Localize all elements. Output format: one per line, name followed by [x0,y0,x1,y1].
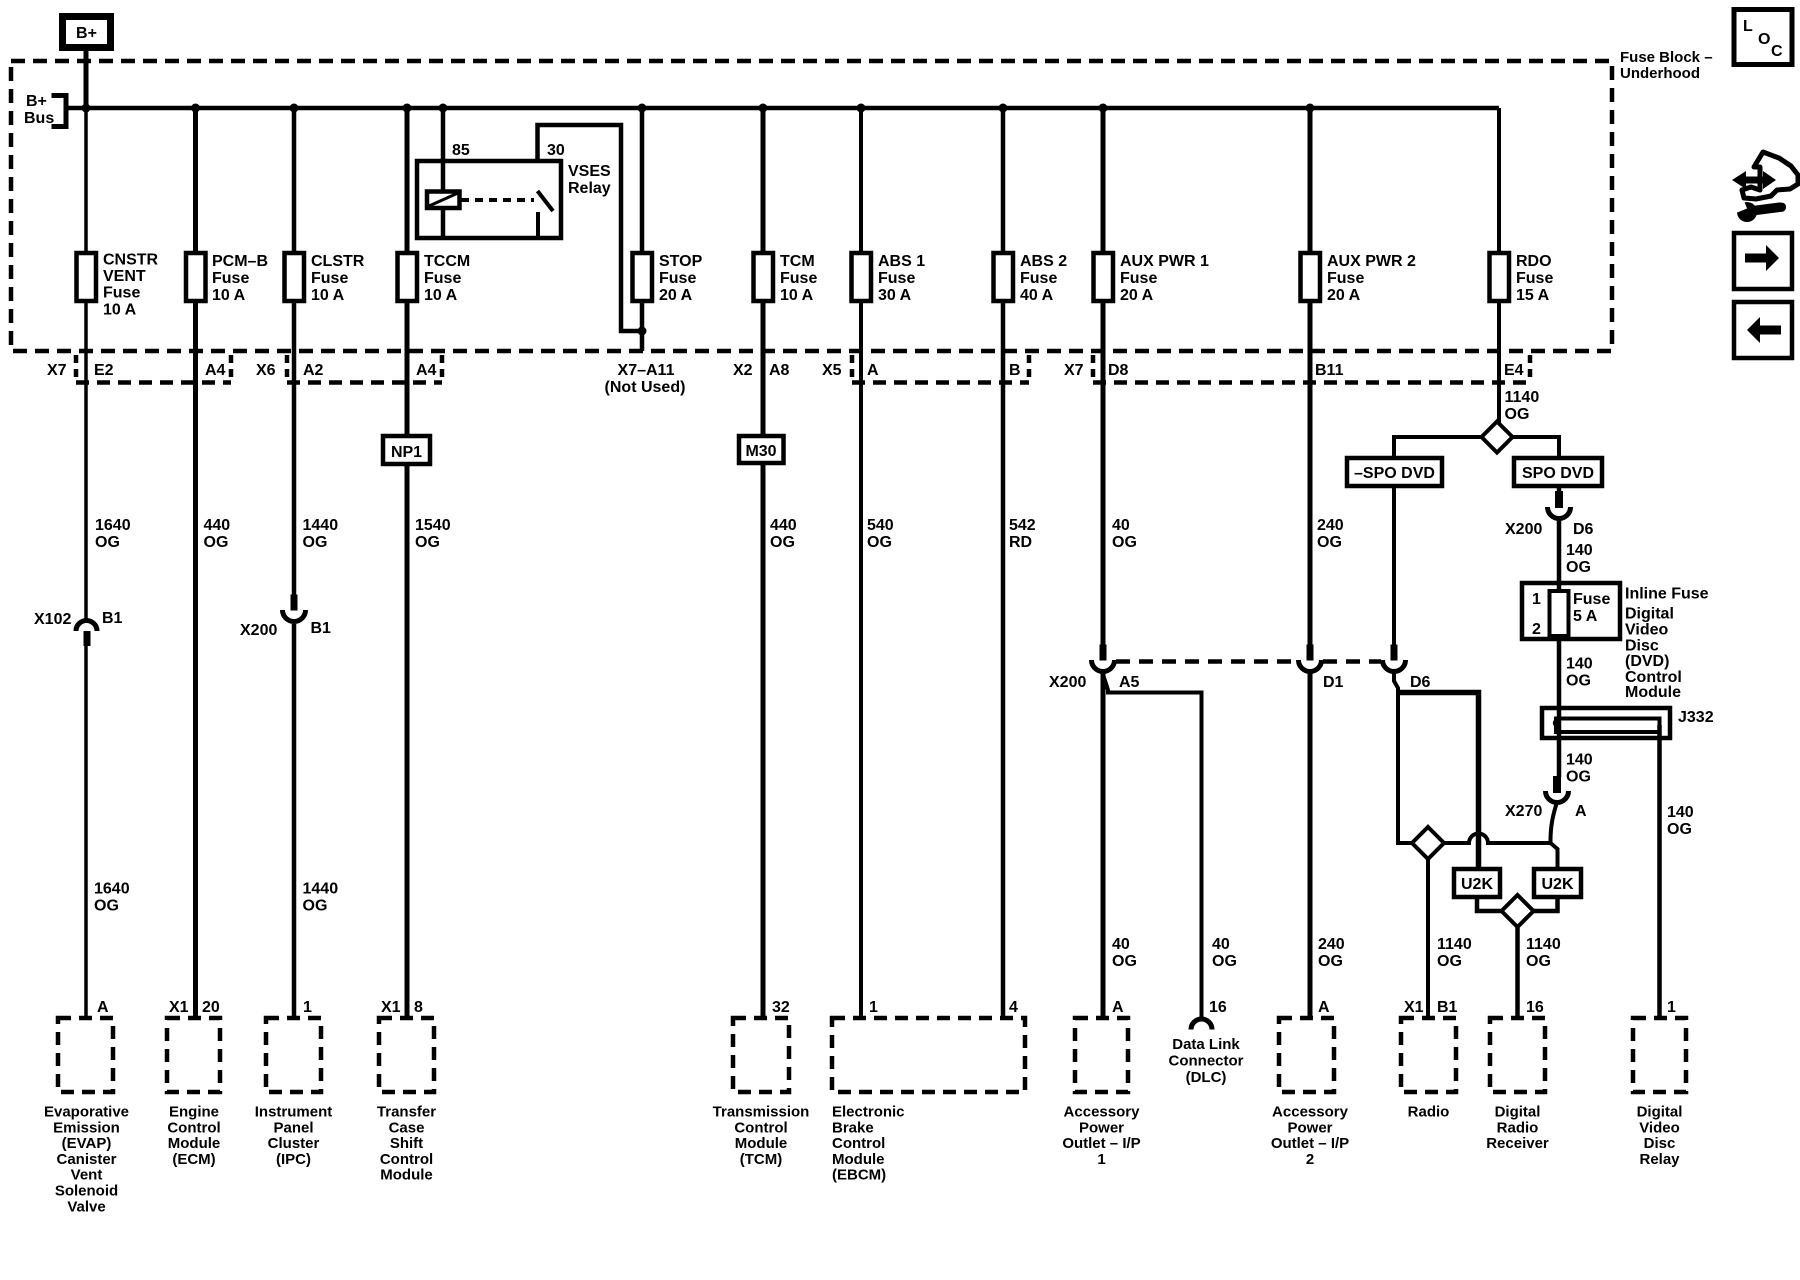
svg-text:CNSTR: CNSTR [103,252,159,269]
wire relay pin 30 to STOP fuse [538,125,643,331]
component box digital radio receiver [1490,1018,1545,1092]
wire PCM-B drop (to ECM) [193,108,198,1018]
component box EVAP canister vent solenoid valve [58,1018,113,1092]
svg-text:A: A [867,362,879,379]
svg-text:140: 140 [1667,804,1694,821]
wire relay coil feed pin 85 [441,108,446,238]
icon arrow back box [1734,302,1792,358]
svg-text:A: A [1112,999,1124,1016]
svg-text:240: 240 [1318,936,1345,953]
svg-text:440: 440 [770,517,797,534]
svg-text:140: 140 [1566,542,1593,559]
svg-text:Fuse Block –: Fuse Block – [1620,49,1713,66]
splice diamond radio feed [1412,827,1444,859]
svg-text:OG: OG [95,534,120,551]
svg-text:Panel: Panel [273,1119,313,1136]
svg-text:540: 540 [867,517,894,534]
pin labels above component boxes [97,999,1676,1016]
label IPC [255,1104,333,1168]
svg-text:Fuse: Fuse [780,270,817,287]
svg-text:Emission: Emission [53,1119,120,1136]
svg-text:B1: B1 [1437,999,1458,1016]
component box transfer case shift control module [379,1018,434,1092]
connector X102 B1 (EVAP wire) [34,610,123,646]
svg-text:OG: OG [1112,953,1137,970]
svg-text:B+: B+ [26,93,47,110]
svg-text:Power: Power [1287,1119,1332,1136]
svg-text:TCM: TCM [780,253,815,270]
svg-text:20: 20 [202,999,220,1016]
wire STOP fuse drop [640,108,645,351]
connector D6 (-SPO DVD wire) [1383,645,1431,692]
component box radio [1401,1018,1456,1092]
label inline fuse DVD control module [1625,586,1709,702]
svg-text:Shift: Shift [390,1135,423,1152]
svg-text:Accessory: Accessory [1272,1104,1349,1121]
component box ECM [167,1018,220,1092]
svg-text:542: 542 [1009,517,1036,534]
svg-text:140: 140 [1566,656,1593,673]
svg-text:1640: 1640 [94,881,130,898]
svg-text:OG: OG [204,534,229,551]
component box EBCM [832,1018,1025,1092]
svg-text:Fuse: Fuse [1516,270,1553,287]
svg-text:Engine: Engine [169,1104,219,1121]
svg-text:1: 1 [1532,591,1541,608]
svg-text:10 A: 10 A [103,302,137,319]
svg-text:D8: D8 [1108,362,1129,379]
connector dashed outline A/B [852,355,1029,383]
svg-text:Connector: Connector [1169,1053,1244,1070]
svg-text:C: C [1771,43,1783,60]
wire radio splice to radio [1426,859,1430,1018]
svg-text:Disc: Disc [1625,638,1659,655]
svg-text:Video: Video [1625,622,1669,639]
connector DLC arc [1191,1019,1212,1029]
fuse RDO 15A [1490,253,1554,304]
wire SPO DVD down to X200 D6 [1557,486,1562,492]
svg-text:OG: OG [1437,953,1462,970]
fuse TCCM 10A [398,253,471,304]
svg-text:Brake: Brake [832,1119,874,1136]
svg-text:D6: D6 [1573,521,1594,538]
svg-text:Relay: Relay [568,180,611,197]
svg-text:X200: X200 [1049,674,1086,691]
svg-text:X7–A11: X7–A11 [618,362,675,379]
svg-text:Fuse: Fuse [1327,270,1364,287]
splice diamond RDO feed [1482,422,1513,453]
svg-text:RD: RD [1009,534,1032,551]
svg-text:Module: Module [735,1135,788,1152]
svg-text:E2: E2 [94,362,114,379]
svg-text:2: 2 [1306,1151,1314,1168]
svg-text:B: B [1009,362,1021,379]
svg-text:X7: X7 [1064,362,1084,379]
svg-text:A4: A4 [205,362,226,379]
label accessory power outlet 1 [1062,1104,1140,1168]
box SPO DVD [1514,458,1602,486]
icon tools/diagnostic [1732,152,1798,222]
svg-text:20 A: 20 A [1120,287,1154,304]
fuse ABS 2 40A [994,253,1068,304]
box M30 option [739,436,784,463]
wire inline fuse to J332 [1557,639,1562,720]
svg-text:SPO DVD: SPO DVD [1522,465,1594,482]
wire CLSTR drop (to IPC) [292,108,297,595]
svg-text:Inline Fuse: Inline Fuse [1625,586,1709,603]
svg-text:(IPC): (IPC) [276,1151,311,1168]
svg-text:OG: OG [1566,673,1591,690]
svg-text:OG: OG [1667,821,1692,838]
svg-text:40: 40 [1212,936,1230,953]
svg-text:Fuse: Fuse [1120,270,1157,287]
svg-text:X7: X7 [47,362,67,379]
svg-text:(ECM): (ECM) [172,1151,215,1168]
svg-text:–SPO DVD: –SPO DVD [1354,465,1435,482]
connector D6 jog down [1394,671,1412,843]
svg-text:PCM–B: PCM–B [212,253,268,270]
relay coil [427,192,460,209]
svg-text:Control: Control [380,1151,433,1168]
svg-text:X200: X200 [1505,521,1542,538]
svg-text:1: 1 [1667,999,1676,1016]
svg-text:Solenoid: Solenoid [55,1183,118,1200]
splice diamond digital radio receiver feed [1502,895,1534,927]
svg-text:(TCM): (TCM) [740,1151,782,1168]
svg-text:Receiver: Receiver [1486,1135,1549,1152]
label EBCM [832,1104,905,1184]
svg-text:140: 140 [1566,752,1593,769]
svg-text:Control: Control [734,1119,787,1136]
connector X200 D6 (DVD feed) [1505,491,1594,538]
svg-text:X6: X6 [256,362,276,379]
wire diamond to X270 junction with hop over U2K wire [1444,834,1551,844]
relay name label [568,163,611,197]
svg-text:X5: X5 [822,362,842,379]
label 140 OG (below inline fuse) [1566,656,1593,690]
svg-text:J332: J332 [1678,709,1714,726]
svg-text:Fuse: Fuse [103,285,140,302]
wire U2K right to bottom splice [1534,897,1558,911]
svg-text:M30: M30 [745,443,776,460]
svg-text:Fuse: Fuse [212,270,249,287]
svg-text:Module: Module [380,1167,433,1184]
svg-text:Control: Control [832,1135,885,1152]
wire TCCM drop (to transfer case module) [405,108,410,1018]
svg-text:A2: A2 [303,362,324,379]
svg-text:10 A: 10 A [424,287,458,304]
wire TCM drop [761,108,766,1018]
svg-text:B+: B+ [76,25,97,42]
label TCM [713,1104,810,1168]
svg-text:Fuse: Fuse [878,270,915,287]
svg-text:1640: 1640 [95,517,131,534]
svg-text:Transfer: Transfer [377,1104,436,1121]
svg-text:85: 85 [452,142,470,159]
svg-text:Module: Module [168,1135,221,1152]
svg-text:1140: 1140 [1505,389,1540,406]
svg-text:OG: OG [303,898,328,915]
svg-text:Accessory: Accessory [1064,1104,1141,1121]
svg-text:A: A [1575,803,1587,820]
label 140 OG (DVD relay wire) [1667,804,1694,838]
svg-text:Module: Module [1625,684,1681,701]
label digital radio receiver [1486,1104,1549,1153]
box U2K left [1454,869,1500,897]
component box digital video disc relay [1633,1018,1686,1092]
svg-text:1440: 1440 [303,517,339,534]
svg-text:STOP: STOP [659,253,703,270]
label EVAP [44,1104,129,1216]
svg-text:Data Link: Data Link [1172,1036,1240,1053]
wire ABS2 drop [1001,108,1006,1018]
svg-text:Outlet – I/P: Outlet – I/P [1062,1135,1140,1152]
svg-text:Underhood: Underhood [1620,65,1700,82]
svg-text:U2K: U2K [1541,876,1573,893]
wire RDO drop [1497,108,1501,423]
wire J332 to DVD relay [1657,725,1662,1018]
wire D6 branch to U2K left [1398,693,1479,870]
svg-text:Evaporative: Evaporative [44,1104,129,1121]
relay linkage dashed [461,198,534,202]
connector X270 A [1505,776,1587,820]
wire diamond to SPO DVD boxes [1394,437,1482,458]
wire X200 D6 to inline fuse [1557,518,1562,591]
label DLC [1169,1036,1244,1086]
svg-text:D1: D1 [1323,674,1344,691]
label ECM [167,1104,220,1168]
fuse CLSTR 10A [285,253,365,304]
svg-text:B1: B1 [311,620,332,637]
svg-text:D6: D6 [1410,674,1431,691]
wire labels row 2 [94,881,338,915]
label digital video disc relay [1637,1104,1683,1168]
wire label 1140 OG (RDO) [1505,389,1540,423]
label 140 OG (below J332) [1566,752,1593,786]
svg-text:40: 40 [1112,936,1130,953]
svg-text:Power: Power [1079,1119,1124,1136]
relay switch contact [538,191,554,211]
splice pack J332 [1542,708,1714,738]
inline fuse box DVD [1522,583,1620,639]
fuse ABS 1 30A [852,253,926,304]
svg-text:OG: OG [303,534,328,551]
svg-text:20 A: 20 A [659,287,693,304]
svg-text:10 A: 10 A [780,287,814,304]
svg-text:NP1: NP1 [391,444,422,461]
svg-text:TCCM: TCCM [424,253,470,270]
connector X200 A5 (AUX PWR 1) [1049,645,1140,692]
svg-text:1540: 1540 [415,517,451,534]
svg-text:OG: OG [1526,953,1551,970]
svg-text:40 A: 40 A [1020,287,1054,304]
wire labels row 3 [1112,936,1561,970]
component box IPC [266,1018,321,1092]
svg-text:(EVAP): (EVAP) [62,1135,112,1152]
svg-text:Digital: Digital [1637,1104,1683,1121]
svg-text:Fuse: Fuse [1020,270,1057,287]
svg-text:15 A: 15 A [1516,287,1550,304]
wire X270 A down with jog [1551,802,1558,841]
svg-text:A: A [1318,999,1330,1016]
component box accessory power outlet 1 [1075,1018,1128,1092]
connector row labels under fuse block [47,362,1524,396]
svg-text:Fuse: Fuse [424,270,461,287]
svg-text:X102: X102 [34,611,71,628]
connector D1 (AUX PWR 2) [1299,645,1344,692]
svg-text:Transmission: Transmission [713,1104,810,1121]
fuse PCM-B 10A [186,253,268,304]
svg-text:Fuse: Fuse [311,270,348,287]
fuse AUX PWR 2 20A [1301,253,1417,304]
wire U2K left to bottom splice [1477,897,1502,911]
svg-text:X1: X1 [1404,999,1424,1016]
svg-text:A8: A8 [769,362,790,379]
svg-text:Control: Control [167,1119,220,1136]
svg-text:30: 30 [547,142,565,159]
svg-text:OG: OG [1566,769,1591,786]
svg-text:B1: B1 [102,610,123,627]
svg-text:Canister: Canister [56,1151,116,1168]
svg-text:Valve: Valve [67,1198,105,1215]
fuse STOP 20A [633,253,703,304]
svg-text:OG: OG [1317,534,1342,551]
svg-text:U2K: U2K [1461,876,1493,893]
wire J332 to X270 [1557,731,1562,777]
svg-text:30 A: 30 A [878,287,912,304]
svg-text:Module: Module [832,1151,885,1168]
svg-text:1: 1 [303,999,312,1016]
svg-text:ABS 1: ABS 1 [878,253,925,270]
svg-text:440: 440 [204,517,231,534]
wire AUX PWR 1 branch to DLC [1104,676,1202,1018]
label Fuse Block - Underhood [1620,49,1713,82]
svg-text:Electronic: Electronic [832,1104,905,1121]
wire B+ box to bus [84,50,89,108]
fuse TCM 10A [754,253,818,304]
icon arrow next box [1734,233,1792,289]
svg-text:20 A: 20 A [1327,287,1361,304]
wire labels row 1 [95,517,1344,551]
svg-text:OG: OG [1212,953,1237,970]
svg-text:VSES: VSES [568,163,611,180]
svg-text:X1: X1 [169,999,189,1016]
connector X200 B1 (CLSTR wire) [240,595,331,640]
box NP1 option [383,436,430,464]
svg-text:B11: B11 [1315,362,1344,379]
svg-text:OG: OG [1318,953,1343,970]
svg-text:5 A: 5 A [1573,608,1598,625]
svg-text:OG: OG [1112,534,1137,551]
svg-text:OG: OG [1566,559,1591,576]
svg-text:Instrument: Instrument [255,1104,333,1121]
fuse CNSTR VENT 10A [77,252,159,319]
box U2K right [1534,869,1581,897]
svg-text:X270: X270 [1505,803,1542,820]
node B+ Bus label and bracket [24,93,66,127]
svg-text:X1: X1 [381,999,401,1016]
connector dashed outline E2/A4 [76,355,231,383]
svg-text:1140: 1140 [1437,936,1472,953]
svg-text:(DVD): (DVD) [1625,653,1669,670]
svg-text:A: A [97,999,109,1016]
svg-text:(Not Used): (Not Used) [605,379,686,396]
label accessory power outlet 2 [1271,1104,1349,1168]
icon LOC box [1734,10,1792,65]
svg-text:1140: 1140 [1526,936,1561,953]
svg-text:A5: A5 [1119,674,1140,691]
svg-text:Vent: Vent [71,1167,103,1184]
relay VSES box [417,161,561,238]
svg-text:16: 16 [1209,999,1227,1016]
wire ABS1 drop [859,108,863,1018]
fuse block underhood dashed border [11,61,1612,351]
svg-text:Radio: Radio [1497,1119,1539,1136]
svg-text:Video: Video [1639,1119,1680,1136]
svg-text:Digital: Digital [1625,606,1674,623]
svg-text:AUX PWR 2: AUX PWR 2 [1327,253,1416,270]
svg-text:X2: X2 [733,362,753,379]
fuse AUX PWR 1 20A [1094,253,1210,304]
svg-text:Relay: Relay [1639,1151,1680,1168]
svg-text:2: 2 [1532,621,1541,638]
svg-text:Case: Case [389,1119,425,1136]
svg-text:16: 16 [1526,999,1544,1016]
svg-text:Bus: Bus [24,110,54,127]
svg-text:Cluster: Cluster [268,1135,320,1152]
B+ power symbol box [63,17,111,48]
svg-text:CLSTR: CLSTR [311,253,365,270]
label transfer case shift control module [377,1104,436,1184]
svg-text:X200: X200 [240,622,277,639]
wire -SPO DVD down to D6 [1392,486,1396,645]
svg-text:OG: OG [770,534,795,551]
svg-text:10 A: 10 A [212,287,246,304]
svg-text:1440: 1440 [303,881,339,898]
svg-text:VENT: VENT [103,268,146,285]
wire B+ bus horizontal [66,106,1499,111]
svg-text:Radio: Radio [1408,1104,1450,1121]
svg-text:Fuse: Fuse [1573,591,1610,608]
wire X200 harness dashed line [1116,659,1381,664]
svg-text:40: 40 [1112,517,1130,534]
svg-text:Disc: Disc [1644,1135,1676,1152]
connector dashed outline A2/A4 [287,355,442,383]
svg-text:RDO: RDO [1516,253,1552,270]
svg-text:L: L [1743,18,1753,35]
svg-text:4: 4 [1009,999,1018,1016]
svg-text:10 A: 10 A [311,287,345,304]
svg-text:OG: OG [1505,406,1530,423]
svg-text:ABS 2: ABS 2 [1020,253,1067,270]
svg-text:Fuse: Fuse [659,270,696,287]
junction dots on bus [82,104,1315,113]
wire splice to digital radio receiver [1515,927,1520,1018]
svg-text:OG: OG [415,534,440,551]
wire AUX PWR 1 drop [1101,108,1106,645]
wire AUX PWR 2 drop [1308,108,1313,645]
svg-text:240: 240 [1317,517,1344,534]
svg-text:A4: A4 [416,362,437,379]
connector dashed outline D8/B11/E4 [1093,355,1530,383]
svg-text:Digital: Digital [1495,1104,1541,1121]
svg-text:1: 1 [1097,1151,1105,1168]
label 140 OG (above inline fuse) [1566,542,1593,576]
svg-text:AUX PWR 1: AUX PWR 1 [1120,253,1209,270]
svg-text:Outlet – I/P: Outlet – I/P [1271,1135,1349,1152]
svg-text:OG: OG [867,534,892,551]
component box TCM [733,1018,789,1092]
